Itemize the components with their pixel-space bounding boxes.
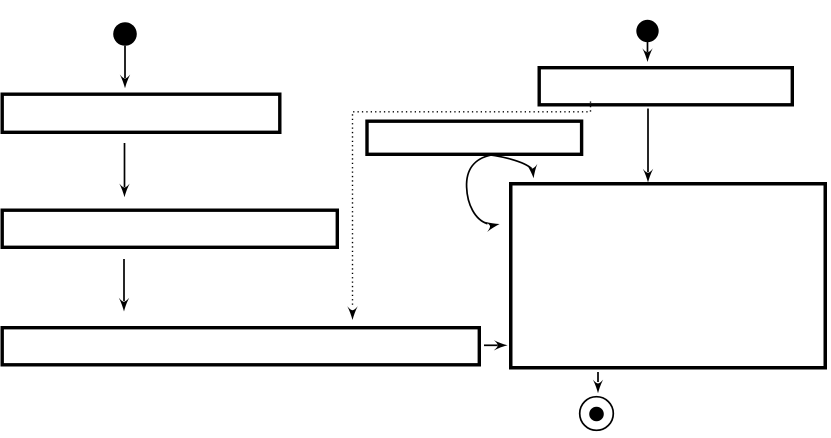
box1 activity (2, 94, 280, 132)
bigbox activity (511, 184, 826, 368)
wire loop curve A box5->bigbox top (481, 154, 539, 179)
wire e5 start->box4 (642, 42, 652, 62)
wire dotted edge box4->box3 (347, 102, 590, 321)
box3 activity (wide bottom) (2, 328, 479, 365)
wire e6 box4->bigbox (643, 109, 653, 183)
box5 activity (middle) (367, 121, 582, 154)
wire e1 start->box1 (120, 46, 130, 89)
box4 activity (top right) (539, 68, 792, 105)
box2 activity (2, 210, 337, 247)
wire e7 bigbox->final (593, 372, 603, 393)
wire e4 box3->bigbox (484, 340, 508, 350)
initial node (left start circle) (113, 22, 137, 46)
wire e3 box2->box3 (119, 259, 129, 312)
wire loop curve B box5->bigbox left (467, 155, 501, 232)
final node (end circle) (580, 397, 614, 431)
initial node (right start circle) (636, 20, 658, 42)
wire e2 box1->box2 (119, 143, 129, 197)
